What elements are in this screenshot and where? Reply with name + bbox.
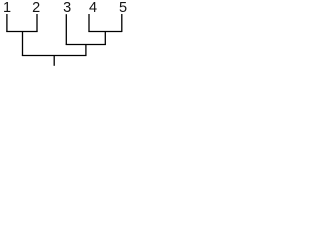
wire stem clade (1,2) (22, 32, 24, 56)
node root bracket (22, 55, 87, 57)
wire stem leaf 4 (88, 14, 90, 32)
wire stem clade (4,5) (104, 32, 106, 45)
wire stem leaf 1 (6, 14, 8, 32)
svg-text:3: 3 (63, 0, 71, 16)
wire stem leaf 3 (65, 14, 67, 45)
wire stem leaf 2 (36, 14, 38, 32)
svg-text:2: 2 (32, 0, 40, 16)
node (1,2) bracket (6, 31, 37, 33)
wire stem leaf 5 (121, 14, 123, 32)
svg-text:4: 4 (89, 0, 97, 16)
svg-text:1: 1 (3, 0, 11, 16)
wire stem clade (3,(4,5)) (85, 45, 87, 56)
wire root stem (53, 56, 55, 66)
node (3,(4,5)) bracket (66, 44, 106, 46)
svg-text:5: 5 (119, 0, 127, 16)
node (4,5) bracket (88, 31, 122, 33)
